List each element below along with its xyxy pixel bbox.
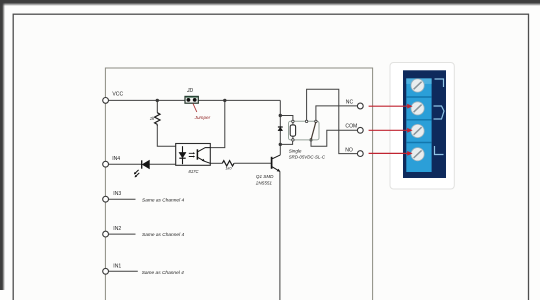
wire LED anode to opto	[149, 163, 182, 165]
transistor Q1 2N5551	[255, 155, 280, 185]
relay blade	[311, 122, 316, 140]
leader arrow NO to terminal	[369, 151, 413, 156]
svg-text:NC: NC	[346, 99, 354, 105]
wire VCC rail left	[108, 99, 185, 101]
junction diode top	[279, 114, 282, 117]
wire relay common to COM node	[311, 130, 357, 146]
svg-text:Same as Channel 4: Same as Channel 4	[142, 197, 184, 203]
opto-coupler U 817C	[176, 144, 211, 174]
screw 3	[411, 124, 424, 137]
wire relay NO contact to NO node	[307, 89, 358, 153]
leader arrow NC to terminal	[369, 104, 413, 109]
node VCC	[103, 91, 124, 103]
terminal block photo card	[390, 63, 454, 190]
svg-text:NO: NO	[345, 147, 353, 153]
svg-text:Same as Channel 4: Same as Channel 4	[142, 232, 184, 238]
LED indicator (IN4)	[134, 160, 150, 177]
wire IN2 stub	[109, 233, 136, 235]
wire IN3 stub	[109, 198, 136, 200]
node IN3	[103, 191, 122, 202]
node COM	[345, 124, 363, 134]
svg-text:IN2: IN2	[113, 226, 121, 232]
wire IN4 to LED cathode	[109, 163, 142, 165]
screw 2	[411, 102, 424, 115]
junction at R1 top	[156, 99, 159, 102]
relay K1 SRD-05VDC-SL-C	[289, 120, 326, 159]
resistor R (1k0) horizontal	[222, 161, 234, 171]
resistor R (1k) vertical	[150, 100, 160, 126]
node IN4	[103, 156, 121, 167]
junction relay pivot	[309, 138, 312, 141]
node IN1	[103, 264, 122, 275]
photo transistor	[196, 149, 198, 159]
jumper JD	[185, 88, 211, 120]
relay coil	[290, 125, 295, 136]
node NO	[345, 147, 363, 156]
wire relay to collector	[279, 131, 281, 155]
svg-text:IN3: IN3	[113, 191, 121, 197]
node IN2	[103, 226, 122, 237]
wire opto collector to JD-VCC	[210, 100, 224, 147]
svg-text:Q1 SMD: Q1 SMD	[256, 174, 274, 179]
node NC	[346, 99, 363, 109]
wire IN1 stub	[109, 270, 138, 272]
junction diode bottom / collector	[279, 143, 282, 146]
wire relay NC contact to NC node	[316, 106, 358, 120]
wire Q1 emitter down	[279, 171, 281, 300]
relay pins	[292, 120, 294, 122]
light arrows	[189, 153, 193, 156]
flyback diode D1	[278, 127, 283, 131]
schematic sheet border (decorative)	[105, 68, 372, 300]
svg-text:IN4: IN4	[112, 156, 120, 162]
svg-text:JD: JD	[186, 88, 194, 94]
wire coil top	[280, 116, 293, 121]
screw 1	[411, 79, 424, 92]
svg-text:2N5551: 2N5551	[255, 180, 273, 185]
wire resistor to opto LED anode	[157, 124, 182, 146]
svg-text:VCC: VCC	[112, 91, 123, 97]
wire opto emitter to base resistor	[210, 162, 222, 164]
wire base resistor to Q1 base	[234, 162, 271, 164]
clamp outlines	[435, 79, 444, 87]
wire JD-VCC drop to relay	[279, 100, 281, 127]
svg-text:Same as Channel 4: Same as Channel 4	[142, 270, 184, 276]
screw 4	[411, 148, 424, 161]
svg-text:IN1: IN1	[113, 264, 121, 270]
leader arrow COM to terminal	[369, 128, 413, 133]
svg-text:Jumper: Jumper	[194, 115, 211, 120]
wire VCC rail right	[198, 99, 280, 101]
LED inside opto	[182, 146, 184, 152]
wire coil bottom	[280, 141, 292, 144]
junction at opto collector rail	[223, 99, 226, 102]
svg-text:COM: COM	[345, 124, 357, 130]
svg-text:817C: 817C	[189, 169, 200, 174]
svg-text:Single: Single	[289, 148, 302, 153]
svg-text:1k0: 1k0	[225, 166, 232, 171]
svg-text:SRD-05VDC-SL-C: SRD-05VDC-SL-C	[289, 155, 326, 160]
